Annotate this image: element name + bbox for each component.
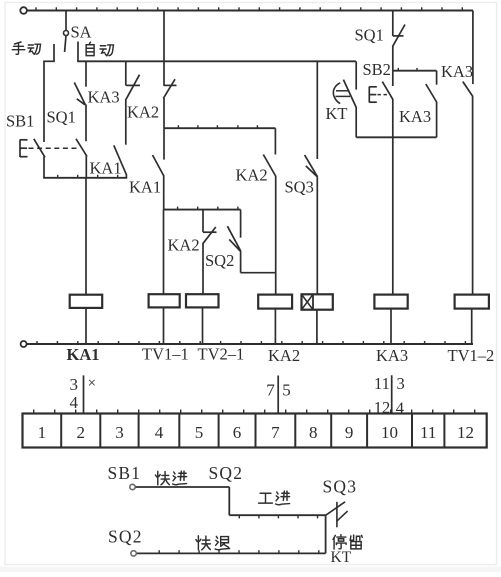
- svg-text:KT: KT: [326, 104, 348, 123]
- svg-text:3: 3: [115, 423, 124, 442]
- wire auto feed bus: [77, 60, 356, 62]
- label terminal 3: [115, 423, 124, 442]
- contact SQ3 limit: [305, 61, 318, 294]
- node cycle return start: [131, 551, 136, 556]
- contact KA3 NO right: [463, 11, 473, 295]
- svg-text:11: 11: [420, 423, 436, 442]
- node L1 supply terminal: [20, 7, 27, 14]
- contact SQ1 NC top: [393, 11, 405, 71]
- contact KA3 NO mid: [426, 71, 437, 138]
- contact KA2 NC mid: [203, 210, 217, 295]
- label zi-dong (auto): [86, 42, 113, 56]
- label SQ1 top: [355, 26, 384, 45]
- switch SA selector: [64, 11, 69, 53]
- label terminal 2: [77, 423, 86, 442]
- svg-text:KA2: KA2: [168, 236, 200, 255]
- svg-text:TV2–1: TV2–1: [198, 345, 245, 364]
- label terminal 7: [271, 423, 280, 442]
- wire strip connector 3-4: [83, 375, 85, 413]
- svg-text:TV1–2: TV1–2: [448, 346, 495, 365]
- svg-text:5: 5: [282, 381, 291, 400]
- label 4 left: [70, 393, 79, 412]
- svg-text:SQ2: SQ2: [209, 463, 244, 483]
- wire TV1-2 to bus: [471, 309, 473, 344]
- svg-text:4: 4: [396, 399, 404, 418]
- coil TV2-1: [186, 294, 219, 307]
- label KA2 mid: [168, 236, 200, 255]
- svg-text:×: ×: [88, 376, 96, 392]
- wire node bus y70: [393, 68, 437, 71]
- label SB1 cycle: [108, 463, 142, 483]
- svg-text:10: 10: [381, 423, 398, 442]
- label KA1 left: [90, 159, 122, 178]
- svg-text:KA1: KA1: [67, 345, 100, 364]
- svg-text:7: 7: [271, 423, 280, 442]
- contact KT delay: [333, 61, 356, 137]
- svg-text:6: 6: [233, 423, 242, 442]
- svg-text:4: 4: [155, 423, 164, 442]
- svg-text:2: 2: [77, 423, 86, 442]
- wire YV to bus: [316, 310, 318, 344]
- wire junction bus SB1-SQ1-KA1: [43, 175, 127, 178]
- wire work feed line: [229, 515, 325, 518]
- label SQ2 cycle top: [209, 463, 244, 483]
- label 12 conn: [374, 398, 391, 417]
- svg-text:3: 3: [397, 374, 405, 393]
- label 7 conn: [266, 381, 275, 400]
- coil KA2: [258, 295, 292, 309]
- wire top supply bus: [27, 7, 473, 10]
- label SA: [71, 23, 92, 42]
- label TV1-1: [142, 345, 189, 364]
- svg-text:SB1: SB1: [108, 463, 142, 483]
- wire step down: [228, 487, 230, 515]
- svg-text:KA3: KA3: [88, 88, 120, 107]
- contact KA1 NO right: [153, 128, 165, 209]
- label kuai-tui (rapid return): [196, 536, 230, 550]
- wire KA1 coil to bus: [85, 308, 87, 344]
- label terminal 12: [457, 423, 474, 442]
- label SQ2 cycle bottom: [108, 527, 143, 547]
- label KT: [326, 104, 348, 123]
- svg-text:SQ2: SQ2: [205, 251, 234, 270]
- pushbutton SB1: [20, 139, 45, 178]
- svg-text:12: 12: [457, 423, 474, 442]
- label SQ3 schematic: [285, 178, 314, 197]
- svg-text:5: 5: [195, 423, 204, 442]
- coil KA3: [374, 295, 407, 309]
- svg-text:KA3: KA3: [399, 107, 431, 126]
- svg-text:1: 1: [38, 423, 47, 442]
- label x mark: [88, 376, 96, 392]
- node L2 supply terminal: [21, 341, 27, 347]
- wire strip connector 11-12: [391, 375, 393, 413]
- label kuai-jin (rapid advance): [155, 471, 186, 485]
- coil KA1: [70, 295, 103, 308]
- label 5 conn: [282, 381, 291, 400]
- label KA2 coil: [268, 346, 300, 365]
- wire KA1 coil branch: [85, 178, 87, 295]
- label shou-dong (manual): [12, 42, 40, 54]
- label ting-liu (dwell): [333, 535, 362, 549]
- svg-text:SB1: SB1: [6, 112, 34, 131]
- label KT cycle: [331, 549, 352, 566]
- label TV2-1: [198, 345, 245, 364]
- wire parallel group bus: [356, 136, 436, 138]
- svg-text:KT: KT: [331, 549, 352, 566]
- svg-text:KA3: KA3: [376, 346, 408, 365]
- label terminal 5: [195, 423, 204, 442]
- wire bus y128: [164, 125, 275, 128]
- label gong-jin (work feed): [259, 491, 290, 505]
- label KA2 selfhold: [236, 166, 268, 185]
- svg-text:SQ1: SQ1: [47, 108, 76, 127]
- wire drop from top bus x164: [163, 11, 165, 86]
- label terminal 9: [345, 423, 354, 442]
- coil TV1-1: [149, 294, 180, 307]
- svg-text:9: 9: [345, 423, 354, 442]
- label KA1 coil: [67, 345, 100, 364]
- svg-text:8: 8: [309, 423, 318, 442]
- contact KA2 NC: [126, 61, 140, 144]
- svg-text:TV1–1: TV1–1: [142, 345, 189, 364]
- wire TV1-1 to bus: [163, 307, 165, 344]
- label KA2 NC: [127, 103, 159, 122]
- contact KA1 NO left: [114, 145, 127, 178]
- svg-text:KA3: KA3: [441, 62, 473, 81]
- label KA3 left: [88, 88, 120, 107]
- svg-text:SB2: SB2: [363, 60, 391, 79]
- wire rapid advance line: [136, 486, 230, 488]
- label terminal 11: [420, 423, 436, 442]
- solenoid YV box with X: [302, 294, 333, 309]
- wire manual throw contact: [53, 44, 55, 61]
- pushbutton SB2: [369, 71, 393, 138]
- node cycle start: [130, 484, 135, 489]
- contact SQ2 limit: [227, 210, 275, 273]
- terminal strip 1-12: [23, 410, 487, 448]
- label KA3 mid: [399, 107, 431, 126]
- label 3 conn: [397, 374, 405, 393]
- wire auto throw contact: [77, 42, 79, 62]
- wire KA3 coil branch: [392, 137, 394, 294]
- label SB1: [6, 112, 34, 131]
- label terminal 6: [233, 423, 242, 442]
- svg-text:SQ3: SQ3: [323, 477, 358, 497]
- svg-text:KA2: KA2: [268, 346, 300, 365]
- label terminal 8: [309, 423, 318, 442]
- label SQ2 schematic: [205, 251, 234, 270]
- svg-text:SQ1: SQ1: [355, 26, 384, 45]
- wire dwell drop: [325, 515, 327, 553]
- contact KA3 NC left: [74, 61, 86, 141]
- svg-text:4: 4: [70, 393, 79, 412]
- svg-text:KA1: KA1: [90, 159, 122, 178]
- svg-text:7: 7: [266, 381, 275, 400]
- label TV1-2: [448, 346, 495, 365]
- label SQ1 left: [47, 108, 76, 127]
- label 11 conn: [374, 374, 390, 393]
- label terminal 1: [38, 423, 47, 442]
- svg-text:SA: SA: [71, 23, 92, 42]
- label terminal 10: [381, 423, 398, 442]
- label KA3 coil: [376, 346, 408, 365]
- svg-text:KA2: KA2: [127, 103, 159, 122]
- label KA1 right: [129, 178, 161, 197]
- wire bus y209: [164, 207, 241, 210]
- label SB2: [363, 60, 391, 79]
- svg-text:11: 11: [374, 374, 390, 393]
- wire manual elbow to SB1 branch: [43, 61, 55, 142]
- coil TV1-2: [455, 295, 489, 309]
- label 4 conn: [396, 399, 404, 418]
- wire dashed mechanical link: [29, 147, 80, 149]
- wire KA2 coil to bus: [274, 309, 276, 344]
- svg-text:KA1: KA1: [129, 178, 161, 197]
- wire rapid return line: [137, 550, 326, 553]
- label SQ3 cycle: [323, 477, 358, 497]
- svg-text:3: 3: [70, 375, 79, 394]
- wire KA3 coil to bus: [390, 309, 392, 344]
- contact SQ1 left: [76, 139, 87, 178]
- symbol SQ3 trip arrow: [326, 502, 348, 528]
- svg-text:SQ3: SQ3: [285, 178, 314, 197]
- wire TV2-1 to bus: [202, 307, 204, 344]
- contact KA2 NO selfhold: [263, 128, 276, 294]
- svg-text:KA2: KA2: [236, 166, 268, 185]
- label KA3 right: [441, 62, 473, 81]
- wire bottom supply bus: [27, 341, 473, 344]
- label 3 left: [70, 375, 79, 394]
- contact KA2 NC second: [163, 79, 176, 128]
- label terminal 4: [155, 423, 164, 442]
- wire TV1-1 branch: [163, 210, 165, 295]
- svg-text:SQ2: SQ2: [108, 527, 143, 547]
- wire strip connector 7-5: [277, 376, 279, 414]
